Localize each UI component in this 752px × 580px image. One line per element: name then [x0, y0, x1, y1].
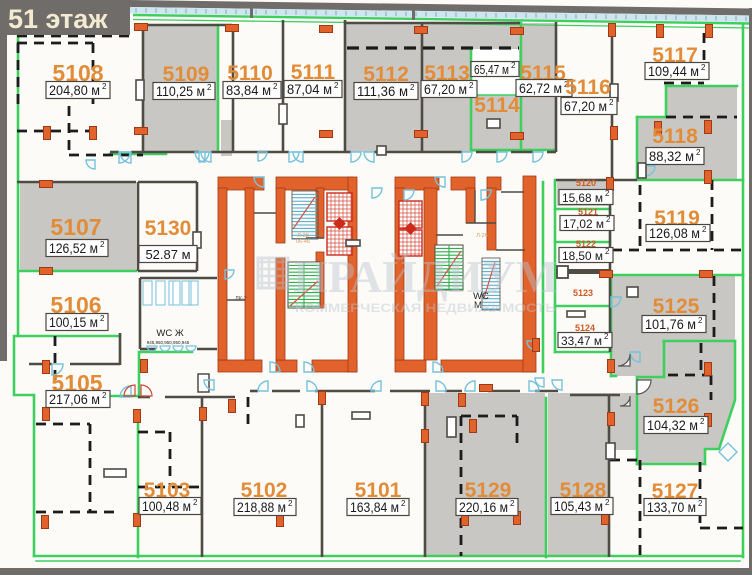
svg-text:100,48 м: 100,48 м: [142, 499, 191, 514]
svg-text:87,04 м: 87,04 м: [287, 82, 332, 97]
svg-text:2: 2: [469, 81, 474, 90]
svg-text:2: 2: [700, 417, 705, 426]
svg-text:06-46: 06-46: [296, 239, 310, 245]
svg-text:2: 2: [288, 499, 293, 508]
svg-text:2: 2: [605, 247, 610, 256]
svg-text:2: 2: [696, 148, 701, 157]
svg-text:5126: 5126: [653, 395, 700, 418]
svg-text:2: 2: [100, 314, 105, 323]
svg-text:101,76 м: 101,76 м: [645, 317, 696, 332]
svg-text:163,84 м: 163,84 м: [350, 500, 399, 515]
svg-text:2: 2: [193, 498, 198, 507]
svg-text:52.87 м: 52.87 м: [145, 247, 190, 262]
svg-text:2: 2: [605, 189, 610, 198]
svg-text:945,950,950,950,945: 945,950,950,950,945: [147, 340, 190, 345]
svg-text:2: 2: [605, 498, 610, 507]
svg-text:2: 2: [698, 316, 703, 325]
svg-text:5118: 5118: [652, 125, 698, 148]
svg-text:2: 2: [698, 499, 703, 508]
svg-text:2: 2: [100, 240, 105, 249]
svg-text:220,16 м: 220,16 м: [459, 500, 508, 515]
svg-text:104,32 м: 104,32 м: [647, 418, 698, 433]
svg-text:2: 2: [701, 63, 706, 72]
svg-text:2: 2: [207, 83, 212, 92]
svg-text:5124: 5124: [575, 323, 595, 333]
svg-text:Л-26: Л-26: [476, 233, 488, 239]
svg-text:5116: 5116: [565, 76, 611, 99]
svg-text:5107: 5107: [50, 214, 101, 240]
svg-text:2: 2: [702, 225, 707, 234]
svg-text:126,52 м: 126,52 м: [49, 241, 98, 256]
svg-text:218,88 м: 218,88 м: [237, 500, 286, 515]
svg-text:88,32 м: 88,32 м: [649, 149, 694, 164]
svg-text:217,06 м: 217,06 м: [49, 392, 100, 407]
svg-text:2: 2: [609, 98, 614, 107]
svg-text:111,36 м: 111,36 м: [357, 84, 408, 99]
svg-text:2: 2: [102, 82, 107, 91]
svg-text:83,84 м: 83,84 м: [226, 83, 271, 98]
svg-text:133,70 м: 133,70 м: [647, 500, 696, 515]
svg-text:62,72 м: 62,72 м: [519, 81, 562, 96]
svg-text:105,43 м: 105,43 м: [554, 499, 603, 514]
svg-text:2: 2: [102, 391, 107, 400]
svg-text:67,20 м: 67,20 м: [564, 99, 607, 114]
svg-text:126,08 м: 126,08 м: [649, 226, 700, 241]
svg-text:ПРАЙДИУМ: ПРАЙДИУМ: [293, 251, 558, 302]
svg-text:51 этаж: 51 этаж: [8, 4, 108, 34]
svg-text:WC Ж: WC Ж: [156, 328, 183, 339]
svg-text:33,47 м: 33,47 м: [561, 334, 602, 348]
svg-text:204,80 м: 204,80 м: [49, 83, 100, 98]
svg-text:КОММЕРЧЕСКАЯ НЕДВИЖИМОСТЬ: КОММЕРЧЕСКАЯ НЕДВИЖИМОСТЬ: [295, 303, 556, 315]
svg-text:2: 2: [510, 499, 515, 508]
svg-text:2: 2: [606, 215, 611, 224]
svg-text:100,15 м: 100,15 м: [49, 315, 98, 330]
svg-text:17,02 м: 17,02 м: [563, 217, 604, 231]
svg-text:5123: 5123: [573, 288, 593, 298]
svg-text:5125: 5125: [653, 295, 700, 318]
svg-text:5120: 5120: [576, 178, 596, 188]
svg-text:5130: 5130: [145, 217, 192, 240]
svg-text:109,44 м: 109,44 м: [648, 64, 699, 79]
svg-text:2: 2: [511, 61, 516, 70]
svg-text:2: 2: [334, 81, 339, 90]
svg-text:110,25 м: 110,25 м: [156, 84, 205, 99]
svg-text:18,50 м: 18,50 м: [562, 249, 603, 263]
svg-text:ЛК-2: ЛК-2: [235, 296, 247, 302]
svg-text:65,47 м: 65,47 м: [474, 63, 509, 77]
svg-text:2: 2: [604, 332, 609, 341]
svg-text:2: 2: [410, 83, 415, 92]
svg-text:15,68 м: 15,68 м: [562, 191, 603, 205]
svg-text:2: 2: [273, 82, 278, 91]
svg-text:5114: 5114: [474, 94, 520, 117]
svg-text:2: 2: [401, 499, 406, 508]
svg-text:67,20 м: 67,20 м: [424, 82, 467, 97]
